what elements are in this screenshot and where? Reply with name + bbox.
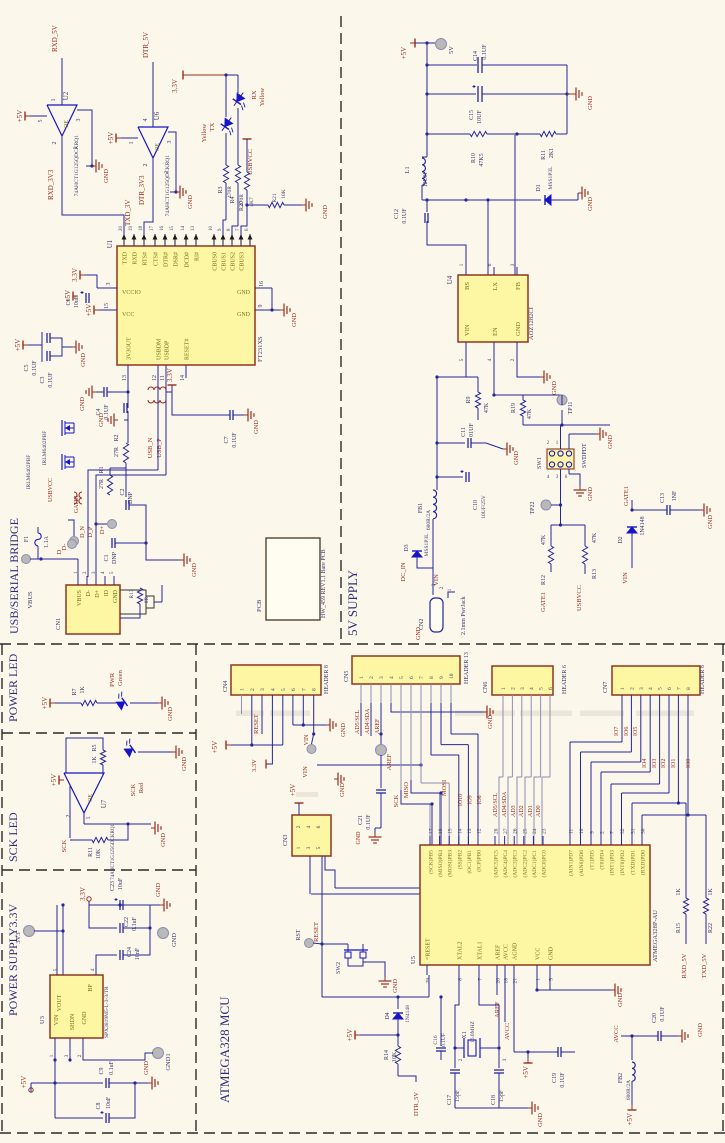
svg-text:GND: GND <box>253 420 260 434</box>
svg-text:USBDP: USBDP <box>165 340 171 360</box>
svg-text:ID: ID <box>104 589 110 596</box>
svg-text:RESET#: RESET# <box>185 339 191 360</box>
svg-text:U2: U2 <box>62 91 70 100</box>
svg-text:(RXD)PD0: (RXD)PD0 <box>640 850 647 875</box>
svg-text:POWER SUPPLY3.3V: POWER SUPPLY3.3V <box>6 904 20 1016</box>
svg-text:3: 3 <box>520 687 526 690</box>
svg-text:R4: R4 <box>230 196 236 203</box>
svg-text:+5V: +5V <box>85 304 93 317</box>
svg-text:GND: GND <box>291 313 298 327</box>
svg-text:RXD_3V3: RXD_3V3 <box>47 169 55 200</box>
svg-text:7: 7 <box>610 831 616 834</box>
svg-text:31: 31 <box>631 828 637 834</box>
svg-text:AREF: AREF <box>494 1001 501 1018</box>
svg-text:VBUS: VBUS <box>77 590 83 606</box>
svg-text:DTR#: DTR# <box>164 252 170 267</box>
svg-text:AVCC: AVCC <box>504 1023 511 1040</box>
svg-text:RXD_5V: RXD_5V <box>51 25 59 52</box>
svg-text:10: 10 <box>449 673 455 679</box>
svg-text:26: 26 <box>513 828 519 834</box>
svg-text:U3: U3 <box>39 1016 46 1024</box>
svg-text:GND: GND <box>607 435 614 449</box>
svg-text:GATE1: GATE1 <box>623 486 630 506</box>
svg-text:0.1uF: 0.1uF <box>109 1060 115 1075</box>
svg-text:5: 5 <box>281 688 287 691</box>
svg-text:17: 17 <box>429 828 435 834</box>
svg-text:IO1: IO1 <box>671 759 677 768</box>
svg-text:1K: 1K <box>708 888 714 896</box>
svg-text:1N4148: 1N4148 <box>405 1005 411 1023</box>
svg-text:1: 1 <box>620 687 626 690</box>
svg-text:10K: 10K <box>281 189 287 199</box>
svg-text:5: 5 <box>53 968 59 971</box>
svg-text:D3: D3 <box>404 544 410 551</box>
svg-text:74AHCT1G125QDCKRQ1: 74AHCT1G125QDCKRQ1 <box>165 155 171 217</box>
svg-text:CBUS3: CBUS3 <box>240 252 246 271</box>
svg-text:C18: C18 <box>491 1095 497 1105</box>
svg-text:R14: R14 <box>384 1050 390 1060</box>
svg-text:3: 3 <box>76 119 82 122</box>
svg-text:GND: GND <box>356 831 362 845</box>
svg-text:5: 5 <box>539 687 545 690</box>
svg-text:ATMEGA328 MCU: ATMEGA328 MCU <box>217 996 232 1103</box>
svg-text:1: 1 <box>447 588 453 591</box>
svg-text:C7: C7 <box>224 436 230 443</box>
svg-text:D+: D+ <box>95 589 101 597</box>
svg-text:GND: GND <box>551 381 558 395</box>
svg-text:AD4/SDA: AD4/SDA <box>502 791 508 817</box>
svg-text:RI#: RI# <box>195 252 201 261</box>
svg-text:LX: LX <box>492 282 499 291</box>
svg-text:GND: GND <box>392 979 399 993</box>
svg-text:GND: GND <box>113 589 119 603</box>
svg-text:CBUS2: CBUS2 <box>231 252 237 271</box>
svg-text:VCC: VCC <box>536 948 542 960</box>
svg-text:4: 4 <box>306 825 312 828</box>
svg-text:1NF: 1NF <box>672 490 678 501</box>
svg-text:1K: 1K <box>676 888 682 896</box>
svg-text:+5V: +5V <box>522 1066 530 1079</box>
svg-text:7: 7 <box>676 687 682 690</box>
svg-text:16.0MHZ: 16.0MHZ <box>470 1020 476 1042</box>
svg-text:FB1: FB1 <box>418 503 424 513</box>
svg-text:3: 3 <box>431 583 437 586</box>
svg-text:C1: C1 <box>104 554 110 561</box>
svg-text:16: 16 <box>160 226 165 232</box>
svg-text:TP22: TP22 <box>530 501 536 514</box>
svg-text:HW_459 REV1.1 Bare PCB: HW_459 REV1.1 Bare PCB <box>321 549 327 618</box>
svg-text:01UF: 01UF <box>469 423 475 437</box>
svg-text:47K: 47K <box>527 408 533 419</box>
svg-text:VOUT: VOUT <box>57 994 63 1011</box>
svg-text:0.1UF: 0.1UF <box>402 208 408 224</box>
svg-text:+5V: +5V <box>14 339 22 352</box>
svg-text:15pF: 15pF <box>499 1089 505 1102</box>
svg-text:3.3V: 3.3V <box>166 368 174 382</box>
svg-text:3: 3 <box>510 263 516 266</box>
svg-text:IO8: IO8 <box>477 795 483 804</box>
svg-text:AREF: AREF <box>386 753 393 770</box>
svg-text:6: 6 <box>548 687 554 690</box>
svg-text:+5V: +5V <box>20 1076 28 1089</box>
svg-text:R5: R5 <box>92 744 98 751</box>
svg-text:11: 11 <box>569 828 575 834</box>
svg-text:R15: R15 <box>676 923 682 933</box>
svg-text:(T1)PD5: (T1)PD5 <box>589 850 596 870</box>
svg-text:DTR_3V3: DTR_3V3 <box>138 175 146 205</box>
svg-text:2: 2 <box>52 142 58 145</box>
svg-text:GND: GND <box>416 626 422 640</box>
svg-text:10uF: 10uF <box>74 295 80 308</box>
svg-text:GND: GND <box>191 563 198 577</box>
svg-text:RXD_5V: RXD_5V <box>681 953 688 978</box>
svg-text:D_P: D_P <box>88 526 94 537</box>
svg-text:2: 2 <box>458 1058 464 1061</box>
svg-text:C2: C2 <box>120 488 126 495</box>
svg-text:+5V: +5V <box>41 697 49 710</box>
svg-text:24: 24 <box>532 828 538 834</box>
svg-text:U7: U7 <box>100 799 108 808</box>
svg-text:0.1UF: 0.1UF <box>660 1006 666 1022</box>
svg-text:1: 1 <box>86 817 92 820</box>
svg-text:IO9: IO9 <box>468 795 474 804</box>
svg-text:18: 18 <box>504 978 510 984</box>
svg-text:GND: GND <box>103 169 110 183</box>
svg-text:2: 2 <box>143 164 149 167</box>
svg-text:10: 10 <box>209 226 214 232</box>
svg-text:IO7: IO7 <box>614 727 620 736</box>
svg-text:VBUS: VBUS <box>27 591 34 609</box>
svg-text:XTAL1: XTAL1 <box>478 941 484 960</box>
svg-text:SCK: SCK <box>130 783 137 796</box>
svg-text:27R: 27R <box>114 447 120 457</box>
svg-text:3V3OUT: 3V3OUT <box>127 337 133 360</box>
svg-text:OE: OE <box>155 143 161 151</box>
svg-text:5V SUPPLY: 5V SUPPLY <box>345 569 360 636</box>
svg-text:10UF/25V: 10UF/25V <box>481 495 487 519</box>
svg-text:16: 16 <box>259 281 265 287</box>
svg-text:GND: GND <box>487 715 494 729</box>
svg-text:FB: FB <box>515 281 522 290</box>
svg-text:C19: C19 <box>552 1073 558 1083</box>
svg-text:1: 1 <box>296 846 302 849</box>
svg-text:3: 3 <box>260 688 266 691</box>
svg-text:FB2: FB2 <box>618 1073 624 1083</box>
svg-text:9: 9 <box>439 676 445 679</box>
svg-text:R19: R19 <box>511 403 517 413</box>
svg-text:F1: F1 <box>24 536 30 542</box>
svg-text:GND: GND <box>79 397 86 411</box>
svg-text:74AHCT1G125QDCKRQ1: 74AHCT1G125QDCKRQ1 <box>74 135 80 197</box>
svg-text:+5V: +5V <box>289 784 297 797</box>
svg-text:IO5: IO5 <box>633 727 639 736</box>
svg-text:14: 14 <box>457 828 463 834</box>
svg-text:47K: 47K <box>484 402 490 413</box>
svg-text:C5: C5 <box>24 364 30 371</box>
svg-text:CN7: CN7 <box>603 682 609 693</box>
svg-text:IRLM6402PBF: IRLM6402PBF <box>26 455 32 490</box>
svg-text:C20: C20 <box>652 1013 658 1023</box>
svg-text:(AIN0)PD6: (AIN0)PD6 <box>578 850 585 876</box>
svg-text:SW2: SW2 <box>336 962 342 974</box>
svg-text:CN1: CN1 <box>55 618 62 630</box>
svg-text:(ICP)PB0: (ICP)PB0 <box>476 850 483 872</box>
svg-text:5V: 5V <box>448 46 455 54</box>
svg-text:GND: GND <box>587 96 594 110</box>
svg-text:3V3: 3V3 <box>15 932 22 943</box>
svg-text:AD2: AD2 <box>519 805 525 817</box>
svg-text:IO0: IO0 <box>686 759 692 768</box>
svg-text:TXD_3V: TXD_3V <box>124 200 132 226</box>
svg-text:D4: D4 <box>385 1012 391 1019</box>
svg-text:13: 13 <box>467 828 473 834</box>
svg-text:10uF: 10uF <box>118 877 124 890</box>
svg-text:1: 1 <box>459 263 465 266</box>
svg-text:1: 1 <box>73 147 79 150</box>
svg-text:GND: GND <box>237 290 251 296</box>
svg-text:HEADER 8: HEADER 8 <box>324 665 330 694</box>
svg-text:14: 14 <box>180 375 186 381</box>
svg-text:3.3V: 3.3V <box>171 79 179 93</box>
svg-text:C17: C17 <box>447 1095 453 1105</box>
svg-text:AGND: AGND <box>513 942 519 960</box>
svg-text:Yellow: Yellow <box>259 87 266 106</box>
svg-text:GND: GND <box>322 205 329 219</box>
svg-text:600R/2A: 600R/2A <box>626 1080 632 1100</box>
svg-text:C12: C12 <box>394 209 400 219</box>
svg-text:USB/SERIAL BRIDGE: USB/SERIAL BRIDGE <box>7 518 21 634</box>
svg-text:(MISO)PB4: (MISO)PB4 <box>437 850 444 877</box>
svg-text:DNP: DNP <box>112 551 118 564</box>
svg-text:(INT0)PD2: (INT0)PD2 <box>619 850 626 876</box>
svg-text:47K: 47K <box>592 532 598 543</box>
svg-text:+5V: +5V <box>107 132 115 145</box>
svg-text:GND: GND <box>697 1023 704 1037</box>
svg-text:USBDM: USBDM <box>157 338 163 360</box>
svg-text:R20: R20 <box>239 201 245 211</box>
svg-text:2: 2 <box>600 831 606 834</box>
svg-text:IRLM6402PBF: IRLM6402PBF <box>42 431 48 466</box>
svg-text:PCB: PCB <box>256 599 263 612</box>
svg-text:1K: 1K <box>80 686 86 694</box>
svg-text:0.1UF: 0.1UF <box>48 372 54 388</box>
svg-text:GND1: GND1 <box>165 1053 172 1070</box>
svg-text:1: 1 <box>240 688 246 691</box>
svg-text:=RESET: =RESET <box>426 938 432 960</box>
svg-text:DNP: DNP <box>128 491 134 504</box>
svg-text:AD4/SDA: AD4/SDA <box>365 708 371 734</box>
svg-text:2: 2 <box>369 676 375 679</box>
svg-text:DTR_5V: DTR_5V <box>142 32 150 58</box>
svg-text:74AHCT1G125GDCKRQ1: 74AHCT1G125GDCKRQ1 <box>111 824 116 880</box>
svg-text:C3: C3 <box>40 376 46 383</box>
svg-text:5: 5 <box>316 846 322 849</box>
svg-text:R11: R11 <box>541 150 547 160</box>
svg-text:1: 1 <box>129 142 135 145</box>
svg-text:(AIN1)PD7: (AIN1)PD7 <box>568 850 575 876</box>
svg-text:GND: GND <box>80 353 87 367</box>
svg-text:2: 2 <box>77 1054 83 1057</box>
svg-text:R11: R11 <box>88 847 94 857</box>
svg-text:10UF: 10UF <box>477 110 483 124</box>
svg-text:0.1UF: 0.1UF <box>32 360 38 376</box>
svg-text:(SS)PB2: (SS)PB2 <box>456 850 463 870</box>
svg-text:PWR: PWR <box>109 672 116 687</box>
svg-text:CN6: CN6 <box>483 682 489 693</box>
svg-text:U1: U1 <box>106 239 114 248</box>
svg-text:C6: C6 <box>66 298 72 305</box>
svg-text:29: 29 <box>426 978 432 984</box>
svg-text:VIN: VIN <box>304 734 310 745</box>
svg-text:IO4: IO4 <box>642 759 648 768</box>
svg-text:1: 1 <box>359 676 365 679</box>
svg-text:C22: C22 <box>124 917 130 927</box>
svg-text:RST: RST <box>296 929 302 940</box>
svg-text:GND: GND <box>160 833 167 847</box>
svg-text:4: 4 <box>529 687 535 690</box>
svg-text:(OC1)PB1: (OC1)PB1 <box>466 850 473 874</box>
svg-text:HEADER 8: HEADER 8 <box>700 665 706 694</box>
svg-text:FT231XS: FT231XS <box>257 336 264 362</box>
svg-text:C24: C24 <box>127 947 133 957</box>
svg-text:4: 4 <box>270 688 276 691</box>
svg-text:27: 27 <box>503 828 509 834</box>
svg-text:IO6: IO6 <box>624 727 630 736</box>
svg-text:GND: GND <box>515 322 522 336</box>
svg-text:GND: GND <box>167 707 174 721</box>
svg-text:3.3V: 3.3V <box>79 887 87 901</box>
svg-text:X1: X1 <box>462 1031 468 1038</box>
svg-text:5: 5 <box>549 978 555 981</box>
svg-text:6: 6 <box>291 688 297 691</box>
svg-text:IO3: IO3 <box>652 759 658 768</box>
svg-text:HEADER 13: HEADER 13 <box>464 652 470 684</box>
svg-text:0.1uF: 0.1uF <box>132 916 138 931</box>
svg-text:GND: GND <box>339 783 346 797</box>
svg-text:TXD_5V: TXD_5V <box>701 953 708 978</box>
svg-text:GND: GND <box>155 883 162 897</box>
svg-text:2: 2 <box>510 687 516 690</box>
svg-text:D1: D1 <box>536 184 542 191</box>
svg-text:VIN: VIN <box>464 324 471 336</box>
svg-text:AD1: AD1 <box>528 805 534 817</box>
svg-text:D+: D+ <box>99 525 106 534</box>
svg-text:USB_P: USB_P <box>156 438 163 458</box>
svg-text:1: 1 <box>49 1054 55 1057</box>
svg-text:(T0)PD4: (T0)PD4 <box>599 850 606 870</box>
svg-text:VIN: VIN <box>622 572 629 584</box>
svg-text:TX: TX <box>209 122 216 131</box>
svg-text:2: 2 <box>629 687 635 690</box>
svg-text:RX: RX <box>251 90 258 99</box>
svg-text:8: 8 <box>429 676 435 679</box>
svg-text:47K: 47K <box>541 534 547 545</box>
svg-text:1: 1 <box>501 687 507 690</box>
svg-text:1: 1 <box>164 171 170 174</box>
svg-text:GND: GND <box>549 946 555 960</box>
svg-text:AD5/SCL: AD5/SCL <box>355 709 361 734</box>
svg-text:C8: C8 <box>96 1102 102 1109</box>
svg-text:2: 2 <box>296 825 302 828</box>
svg-text:3.3V: 3.3V <box>71 268 79 282</box>
svg-text:R9: R9 <box>466 396 472 403</box>
svg-text:AREF: AREF <box>496 944 502 960</box>
svg-text:4: 4 <box>487 358 493 361</box>
svg-text:3.3V: 3.3V <box>251 759 258 772</box>
svg-text:R12: R12 <box>541 575 547 585</box>
svg-text:D: D <box>56 549 63 554</box>
svg-text:SCK: SCK <box>393 794 400 807</box>
svg-text:19: 19 <box>129 226 134 232</box>
svg-text:12: 12 <box>152 375 158 381</box>
svg-text:5: 5 <box>38 120 44 123</box>
svg-text:15: 15 <box>170 226 175 232</box>
svg-text:(SCK)PB5: (SCK)PB5 <box>428 850 435 874</box>
svg-text:CN5: CN5 <box>344 671 350 682</box>
svg-text:C21: C21 <box>358 815 364 825</box>
svg-text:28: 28 <box>494 828 500 834</box>
svg-text:HEADER 6: HEADER 6 <box>562 665 568 694</box>
svg-text:0.1UF: 0.1UF <box>366 814 372 830</box>
svg-text:23: 23 <box>542 828 548 834</box>
svg-text:RXD: RXD <box>133 251 139 264</box>
svg-text:GND: GND <box>587 487 594 501</box>
svg-text:+5V: +5V <box>211 741 219 754</box>
svg-text:+5V: +5V <box>626 1113 634 1126</box>
svg-text:VCCIO: VCCIO <box>122 290 141 296</box>
svg-text:2: 2 <box>510 358 516 361</box>
svg-text:3: 3 <box>306 846 312 849</box>
svg-text:(MOSI)PB3: (MOSI)PB3 <box>447 850 454 877</box>
svg-text:25: 25 <box>522 828 528 834</box>
svg-text:Red: Red <box>138 782 145 793</box>
svg-text:GND: GND <box>181 757 188 771</box>
svg-text:27R: 27R <box>99 479 105 489</box>
svg-text:R13: R13 <box>592 569 598 579</box>
svg-text:MSS1P3L: MSS1P3L <box>424 533 430 557</box>
svg-text:GND: GND <box>617 993 624 1007</box>
svg-text:R17: R17 <box>129 589 135 598</box>
svg-text:R22: R22 <box>708 923 714 933</box>
svg-text:D-: D- <box>61 544 68 551</box>
svg-text:SCK: SCK <box>61 839 68 852</box>
svg-text:3: 3 <box>106 283 112 286</box>
svg-text:0.1UF: 0.1UF <box>441 1033 447 1047</box>
svg-text:5: 5 <box>399 676 405 679</box>
svg-text:XTAL2: XTAL2 <box>458 941 464 960</box>
svg-text:4: 4 <box>389 676 395 679</box>
svg-text:8: 8 <box>312 688 318 691</box>
svg-text:2: 2 <box>66 815 72 818</box>
svg-text:10nF: 10nF <box>135 947 141 960</box>
svg-text:1K: 1K <box>92 756 98 764</box>
svg-text:470R: 470R <box>227 186 233 198</box>
svg-text:C16: C16 <box>433 1035 439 1044</box>
svg-text:15pF: 15pF <box>455 1089 461 1102</box>
svg-text:4: 4 <box>143 119 149 122</box>
svg-text:TXD: TXD <box>123 251 129 264</box>
svg-text:AREF: AREF <box>375 718 381 734</box>
svg-text:U6: U6 <box>153 111 161 120</box>
svg-text:12UH: 12UH <box>423 172 429 187</box>
svg-text:C15: C15 <box>469 110 475 120</box>
svg-text:U5: U5 <box>410 956 417 964</box>
svg-text:D-: D- <box>86 590 92 596</box>
svg-text:USB_N: USB_N <box>147 437 154 458</box>
svg-text:Yellow: Yellow <box>201 123 208 142</box>
svg-text:32: 32 <box>620 828 626 834</box>
svg-text:1N4148: 1N4148 <box>640 516 646 535</box>
